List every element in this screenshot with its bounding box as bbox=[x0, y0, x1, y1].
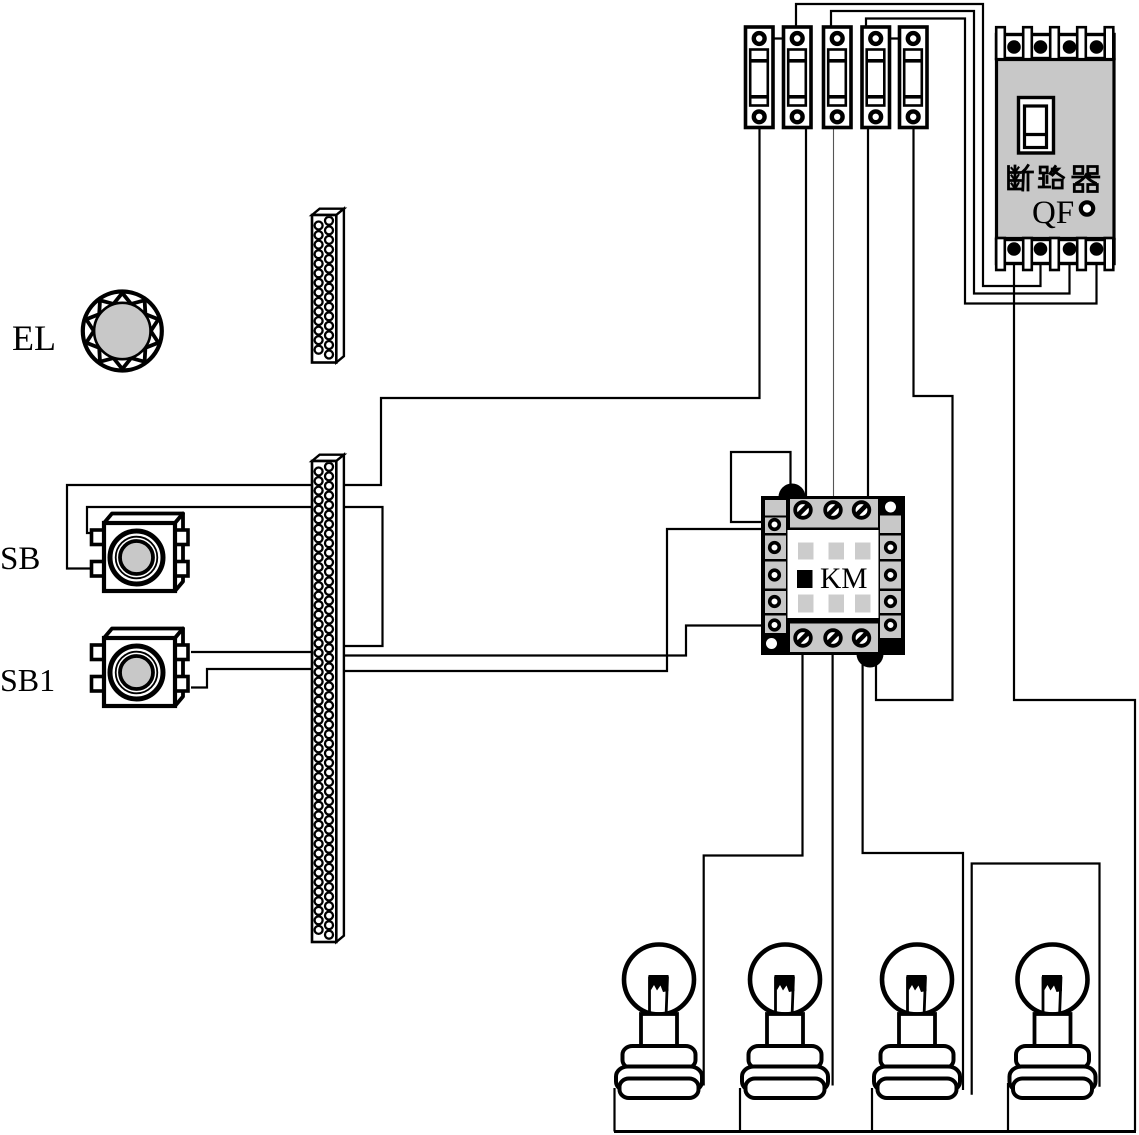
wire: KM bottom screw 1 to bulb HL1 bbox=[704, 650, 803, 1086]
wire: QF bottom terminal 3 loop to FU3 top bbox=[831, 11, 1070, 294]
QF top terminal row bbox=[996, 27, 1114, 59]
wire: KM left terminal 5 to strip X2 (right segment) bbox=[343, 626, 762, 656]
svg-text:KM: KM bbox=[820, 563, 868, 595]
wire: bus stub to bulb HL1 base bbox=[613, 1088, 615, 1132]
wire: fuse FU4 top to FU5 top link bbox=[876, 37, 913, 39]
wire: fuse FU1 top to FU2 top link bbox=[760, 37, 797, 39]
label SB1 bbox=[0, 662, 55, 698]
wire: strip X2 to SB1 upper-right tab (left segment) bbox=[191, 651, 312, 653]
lamp holder EL bbox=[83, 292, 162, 371]
push button SB1 bbox=[92, 629, 189, 707]
wire: bus stub to bulb HL4 base bbox=[1007, 1083, 1009, 1132]
svg-text:SB: SB bbox=[0, 541, 40, 577]
wire: FU4 bottom down to KM top screw 3 bbox=[867, 129, 869, 499]
push button SB bbox=[92, 514, 189, 592]
bulb HL4 bbox=[1010, 945, 1096, 1099]
KM left terminal column bbox=[765, 500, 786, 649]
wire: bulb HL4 feed loop bbox=[972, 864, 1100, 1095]
bulb HL1 bbox=[616, 945, 702, 1099]
svg-text:QF: QF bbox=[1032, 195, 1074, 231]
fuse FU3 bbox=[824, 27, 852, 128]
contactor KM frame bbox=[761, 496, 905, 655]
label EL bbox=[12, 318, 56, 358]
wire: bus stub to bulb HL2 base bbox=[739, 1088, 741, 1132]
label SB bbox=[0, 541, 40, 577]
wire: SB upper-left tab to terminal strip X2 bbox=[87, 507, 383, 646]
wire: FU5 bottom around right to KM bottom bump bbox=[876, 129, 953, 700]
terminal strip X1 (upper) bbox=[312, 209, 344, 363]
bulb HL2 bbox=[742, 945, 828, 1099]
KM right terminal column bbox=[880, 502, 901, 639]
wire: FU1 bottom to SB lower-left tab bbox=[67, 129, 760, 569]
KM top screw strip bbox=[790, 499, 878, 528]
wire: strip X2 to SB1 lower-right tab (left segment) bbox=[191, 669, 312, 688]
svg-text:SB1: SB1 bbox=[0, 662, 55, 698]
wire: KM left terminal 1 to strip X2 (right segment) bbox=[343, 529, 762, 671]
wire: KM left terminal 1 loop to KM top bump (coil A1) bbox=[731, 452, 791, 522]
QF label text 断路器 bbox=[1009, 166, 1099, 192]
bulb HL3 bbox=[874, 945, 960, 1099]
KM label text bbox=[820, 563, 868, 595]
wire: QF bottom terminal 1 down right edge to bottom bus bbox=[1014, 260, 1135, 1131]
wire: FU2 bottom down to KM top (near A1 bump) bbox=[805, 129, 807, 499]
QF label text QF bbox=[1032, 195, 1074, 231]
fuse FU4 bbox=[862, 27, 890, 128]
fuse FU1 bbox=[746, 27, 774, 128]
wire: bottom neutral bus bbox=[614, 1130, 1136, 1133]
fuse FU5 bbox=[900, 27, 928, 128]
circuit breaker QF body bbox=[997, 60, 1115, 239]
wire: KM bottom bump to bulb HL3 bbox=[863, 662, 963, 1090]
svg-text:EL: EL bbox=[12, 318, 56, 358]
contactor KM coil terminal bump bottom (A2) bbox=[857, 641, 884, 668]
wire: KM bottom screw 2 to bulb HL2 bbox=[831, 650, 833, 1086]
fuse FU2 bbox=[784, 27, 812, 128]
QF switch handle bbox=[1019, 98, 1054, 154]
KM center panel bbox=[788, 530, 879, 618]
KM black indicator square bbox=[797, 570, 813, 588]
QF bottom terminal row bbox=[996, 238, 1114, 270]
wire: FU3 bottom down to KM top screw 2 (thin) bbox=[833, 129, 835, 502]
QF indicator circle bbox=[1081, 202, 1093, 214]
KM bottom screw strip bbox=[790, 624, 878, 653]
contactor KM coil terminal bump top (A1) bbox=[779, 484, 806, 511]
wire: bus stub to bulb HL3 base bbox=[871, 1088, 873, 1132]
terminal strip X2 (long) bbox=[312, 455, 344, 942]
wire: QF bottom terminal 2 loop to FU2 top bbox=[796, 4, 1041, 286]
wire: QF bottom terminal 4 loop to FU4 top bbox=[866, 19, 1097, 304]
